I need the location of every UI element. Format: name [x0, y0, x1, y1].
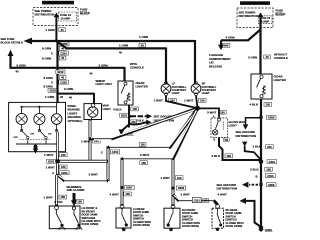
svg-text:4 BLK: 4 BLK	[250, 103, 260, 107]
svg-text:150: 150	[170, 98, 175, 102]
LH/RH front door jamb switch box	[49, 206, 82, 230]
svg-text:150: 150	[177, 176, 182, 180]
wire: RF lamp to splice dot	[184, 96, 206, 107]
svg-text:LIGHT ONLY: LIGHT ONLY	[96, 82, 113, 86]
connector C310	[256, 174, 276, 179]
svg-text:HOT AT ALL TIMES: HOT AT ALL TIMES	[243, 1, 267, 5]
svg-text:HOT AT ALL TIMES: HOT AT ALL TIMES	[46, 1, 70, 5]
svg-text:40: 40	[266, 55, 269, 59]
svg-text:1 ORN: 1 ORN	[45, 95, 54, 99]
see ground distribution (mid right)	[236, 118, 260, 138]
svg-text:2 WHT: 2 WHT	[181, 193, 191, 197]
svg-text:1 WHT: 1 WHT	[161, 176, 171, 180]
svg-text:BLOCK: BLOCK	[276, 12, 286, 16]
luggage compartment lid release note	[209, 53, 231, 68]
svg-text:S208: S208	[61, 42, 68, 46]
cross-ref arrow 3 BLK	[242, 142, 273, 161]
svg-text:S304: S304	[269, 160, 276, 164]
svg-text:WARNINGS: WARNINGS	[67, 185, 82, 189]
splice S202 (dot)	[47, 159, 60, 163]
svg-text:3 WHT: 3 WHT	[207, 110, 217, 114]
fuse block label (left)	[80, 8, 90, 15]
svg-text:8 ORN: 8 ORN	[42, 56, 51, 60]
svg-text:40: 40	[141, 43, 144, 47]
svg-text:8 ORN: 8 ORN	[44, 76, 53, 80]
svg-text:C312: C312	[194, 199, 201, 203]
svg-text:DOOR OPEN): DOOR OPEN)	[133, 223, 150, 227]
svg-text:LIGHTS: LIGHTS	[68, 111, 78, 115]
svg-text:C220: C220	[61, 171, 68, 175]
svg-text:2 WHT: 2 WHT	[89, 172, 99, 176]
fuse block label (right)	[276, 8, 286, 15]
svg-text:AND ALARMS: AND ALARMS	[67, 188, 85, 192]
wire: S202 branch right (white core)	[46, 161, 109, 169]
map light lamp	[88, 107, 98, 120]
splice S208	[42, 42, 69, 51]
fuse F10	[259, 16, 273, 24]
wire: 2 ORN branch to map light	[58, 79, 113, 104]
hot-at-all-times banner (left)	[42, 1, 74, 5]
svg-text:C310: C310	[267, 174, 274, 178]
svg-text:150: 150	[267, 145, 272, 149]
panel lights ground bus	[16, 132, 58, 154]
ground G200	[119, 125, 134, 136]
svg-text:LIGHTER: LIGHTER	[136, 84, 148, 88]
glove box light (dashed housing)	[211, 115, 245, 141]
svg-text:1 WHT: 1 WHT	[44, 153, 54, 157]
connector C214	[42, 51, 68, 60]
svg-text:40: 40	[61, 56, 64, 60]
svg-text:150: 150	[203, 200, 208, 203]
svg-text:B: B	[256, 175, 258, 179]
svg-text:S309: S309	[268, 116, 275, 120]
wire: ray to door switch run (white core)	[122, 108, 198, 205]
splice node S304 (dot)	[250, 159, 277, 171]
svg-text:OFF: OFF	[14, 137, 19, 139]
svg-text:1 WHT: 1 WHT	[154, 98, 164, 102]
wire: branch to RH rear (white core)	[173, 193, 227, 205]
splice S306 on RH front drop	[161, 176, 186, 191]
RF footwell courtesy light	[191, 82, 217, 96]
svg-text:150: 150	[61, 195, 66, 199]
RH front door jamb switch box	[164, 205, 180, 231]
svg-text:3 ORN: 3 ORN	[248, 55, 257, 59]
label 150 on C210 run	[139, 143, 146, 147]
svg-text:B: B	[214, 138, 216, 141]
wire: main left ORN feed down	[56, 40, 58, 103]
RH front switch label	[182, 208, 200, 228]
svg-text:C: C	[101, 150, 103, 154]
svg-text:150: 150	[227, 154, 232, 158]
svg-text:RELEASE: RELEASE	[209, 64, 222, 68]
map light box	[84, 103, 111, 119]
wire: map light ground (white core)	[81, 120, 100, 163]
wire: 3 WHT to glove box light	[200, 108, 227, 117]
lamp bus	[21, 103, 57, 113]
svg-text:BLOCK DETAILS: BLOCK DETAILS	[1, 41, 24, 45]
svg-text:DISTRIBUTION: DISTRIBUTION	[217, 187, 238, 191]
map light connector pin	[92, 104, 95, 107]
svg-text:2 BLK: 2 BLK	[250, 168, 260, 172]
svg-text:1 ORN: 1 ORN	[119, 43, 128, 47]
svg-text:(READING: (READING	[68, 115, 81, 119]
svg-text:1 WHT: 1 WHT	[184, 98, 194, 102]
svg-text:CONSOLE: CONSOLE	[274, 56, 288, 60]
svg-text:DISTRIBUTION: DISTRIBUTION	[35, 13, 55, 17]
LH rear door jamb switch box	[116, 205, 131, 231]
svg-text:LIGHT: LIGHT	[172, 91, 180, 95]
svg-text:BLOCK: BLOCK	[80, 11, 90, 15]
splice S212	[44, 70, 66, 80]
wire: panel lamp return (white core) below box	[44, 152, 67, 175]
svg-text:3 ORN: 3 ORN	[99, 63, 108, 67]
wire from fuse 13 down	[46, 12, 66, 41]
svg-text:DOOR OPEN): DOOR OPEN)	[82, 222, 99, 226]
svg-text:3 BLK: 3 BLK	[211, 154, 221, 158]
wire: drop to LH front switch (white core)	[44, 175, 67, 206]
svg-text:S212: S212	[57, 70, 64, 74]
wire: upper ORN run to RF footwell	[56, 35, 195, 84]
svg-text:G300: G300	[265, 228, 272, 232]
fuse block dashed box (right)	[237, 8, 273, 28]
svg-text:8 ORN: 8 ORN	[17, 63, 26, 67]
splice S210	[120, 113, 131, 118]
splice S307 on LH rear drop	[110, 185, 135, 196]
splice S305	[259, 183, 276, 187]
instrument panel courtesy lights box	[9, 102, 66, 151]
note: warnings and alarms	[67, 185, 85, 192]
svg-text:40: 40	[90, 71, 93, 75]
LH rear switch label	[133, 207, 151, 227]
svg-text:S306: S306	[178, 186, 185, 190]
svg-text:LIGHTER: LIGHTER	[274, 78, 286, 82]
svg-text:150: 150	[141, 161, 146, 165]
svg-text:S307: S307	[126, 186, 133, 190]
svg-text:2 BLK: 2 BLK	[136, 119, 144, 123]
cigar lighter (with console) box	[118, 81, 148, 105]
svg-text:340: 340	[224, 43, 229, 47]
svg-text:OPTIONAL): OPTIONAL)	[68, 119, 83, 123]
label 2 WHT on door run	[140, 153, 150, 165]
svg-text:DOOR OPEN): DOOR OPEN)	[226, 224, 243, 228]
svg-text:C216: C216	[60, 80, 67, 84]
see fuse block details arrow	[1, 37, 58, 44]
svg-text:FUSE 13: FUSE 13	[60, 13, 71, 17]
svg-text:40: 40	[119, 50, 122, 54]
ground G300	[258, 225, 273, 232]
splice node S300 (dot)	[195, 106, 200, 111]
wire: 8 ORN stub with up arrow (left)	[8, 50, 58, 74]
svg-text:150: 150	[220, 110, 225, 114]
wire: LF lamp to splice dot	[154, 96, 197, 108]
wire from fuse 10 down	[248, 12, 288, 74]
svg-text:40: 40	[61, 28, 64, 32]
cross-ref arrow to ground run	[240, 198, 262, 227]
RH rear door jamb switch box	[212, 205, 224, 231]
svg-text:1 WHT: 1 WHT	[46, 165, 56, 169]
svg-text:10 AMP: 10 AMP	[61, 16, 71, 20]
wire: jog to lower run (white core)	[58, 172, 109, 182]
svg-text:LIGHT: LIGHT	[202, 91, 210, 95]
cigar lighter (console) internals	[121, 82, 130, 104]
panel light switches	[14, 124, 58, 139]
svg-text:150: 150	[125, 192, 130, 196]
svg-text:40: 40	[61, 76, 64, 80]
RH rear switch label	[226, 208, 244, 228]
svg-text:4 WHT: 4 WHT	[110, 192, 120, 196]
svg-text:40: 40	[61, 46, 64, 50]
svg-text:40: 40	[60, 95, 63, 99]
svg-text:1 WHT: 1 WHT	[44, 195, 54, 199]
wire: 3 ORN branch to console cigar lighter	[58, 62, 144, 82]
svg-text:1 ORN: 1 ORN	[139, 35, 148, 39]
svg-text:DISTRIBUTION: DISTRIBUTION	[239, 14, 259, 18]
svg-text:LIGHT: LIGHT	[103, 107, 112, 111]
svg-text:1 ORN: 1 ORN	[46, 28, 55, 32]
svg-text:150: 150	[266, 103, 271, 107]
svg-text:DISTRIBUTION: DISTRIBUTION	[236, 134, 257, 138]
hot-at-all-times banner (right)	[240, 1, 270, 5]
svg-text:S202: S202	[48, 160, 55, 164]
connector C210	[101, 150, 120, 155]
svg-text:150: 150	[141, 144, 146, 147]
panel lights label	[68, 104, 83, 123]
svg-text:150: 150	[61, 153, 66, 157]
lamp L1	[16, 113, 27, 124]
svg-text:150: 150	[200, 98, 205, 102]
svg-text:4 WHT: 4 WHT	[218, 193, 228, 197]
splice S309	[259, 115, 276, 119]
svg-text:A: A	[52, 171, 54, 175]
LH front switch label	[82, 206, 101, 226]
svg-text:ON: ON	[48, 134, 52, 136]
svg-text:A: A	[213, 115, 215, 118]
wire: ray to map/box1 branch (white core)	[89, 108, 198, 140]
wire: drop to RH front switch (white core)	[172, 159, 175, 206]
wire: curve to second ground arrow	[129, 120, 152, 125]
svg-text:PANEL: PANEL	[68, 104, 77, 108]
svg-text:40: 40	[16, 70, 19, 74]
svg-text:LIGHT: LIGHT	[229, 123, 238, 127]
cross-ref arrow 8 TAN into LH front box	[54, 193, 83, 206]
wire: lower ORN run to LF footwell	[57, 42, 166, 85]
svg-text:150: 150	[266, 167, 271, 171]
splice S216	[45, 88, 63, 99]
svg-text:CONSOLE: CONSOLE	[130, 65, 144, 69]
svg-text:8 TAN: 8 TAN	[54, 200, 62, 204]
svg-text:8 ORN: 8 ORN	[42, 47, 51, 51]
svg-text:ON: ON	[31, 134, 35, 136]
svg-text:S216: S216	[49, 89, 56, 93]
svg-text:S210: S210	[121, 113, 128, 117]
cigar lighter (without console) box	[251, 74, 286, 99]
wire: ray to C210 drop (white core)	[108, 108, 198, 181]
svg-text:C214: C214	[60, 51, 67, 55]
see ground distribution (center)	[130, 114, 174, 124]
svg-text:150: 150	[131, 121, 136, 124]
wire: 4 ORN branch to luggage release	[218, 30, 261, 51]
svg-text:4 ORN: 4 ORN	[226, 36, 235, 40]
connector C216	[44, 80, 69, 89]
svg-text:150: 150	[77, 200, 82, 204]
svg-text:40: 40	[69, 95, 72, 99]
see ground distribution (bottom right)	[217, 182, 259, 191]
svg-text:C210: C210	[112, 150, 119, 154]
lamp L2	[34, 113, 45, 124]
svg-text:S305: S305	[268, 183, 275, 187]
wire: right main ground run	[250, 99, 272, 228]
svg-text:4 BLK: 4 BLK	[113, 107, 123, 111]
svg-text:READING: READING	[68, 108, 80, 112]
lamp L3	[51, 114, 62, 125]
wire: glove box ground 3 BLK	[211, 138, 260, 161]
svg-text:150: 150	[132, 107, 137, 111]
svg-text:2 WHT: 2 WHT	[140, 153, 150, 157]
svg-text:150: 150	[61, 165, 66, 169]
connector C220	[52, 171, 69, 176]
fuse F13	[59, 12, 77, 21]
wire: console cigar ground 4 BLK	[113, 105, 138, 128]
LF footwell courtesy light	[161, 82, 187, 96]
svg-text:DOOR OPEN): DOOR OPEN)	[182, 224, 199, 228]
svg-text:2 ORN: 2 ORN	[64, 87, 73, 91]
cigar lighter (no console) internals	[257, 75, 266, 98]
fuse block dashed box (left)	[33, 8, 78, 26]
